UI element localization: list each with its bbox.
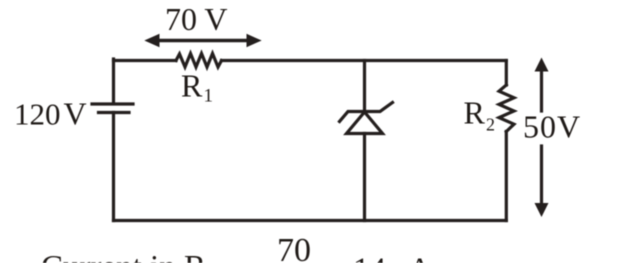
svg-text:R: R bbox=[181, 68, 203, 104]
svg-text:A: A bbox=[408, 252, 432, 263]
svg-text:R: R bbox=[464, 95, 486, 131]
wire bottom bbox=[114, 219, 507, 222]
battery B1 long plate bbox=[92, 102, 133, 105]
arrow 70V shaft bbox=[157, 39, 249, 42]
wire left vertical upper (to battery) bbox=[112, 59, 115, 103]
svg-text:70 V: 70 V bbox=[165, 1, 228, 37]
arrow 50V down head bbox=[535, 203, 549, 217]
wire top right (R1 to top-right corner) bbox=[222, 59, 507, 62]
battery B1 short plate bbox=[99, 111, 130, 114]
arrow 50V up head bbox=[535, 58, 549, 72]
resistor R1 zigzag bbox=[176, 54, 222, 68]
wire middle vertical upper (top wire to zener) bbox=[363, 61, 366, 112]
zener diode D1 anode triangle bbox=[347, 112, 383, 134]
svg-text:1: 1 bbox=[204, 86, 214, 107]
arrow 50V lower shaft bbox=[540, 146, 543, 205]
svg-text:Current in R: Current in R bbox=[41, 250, 206, 263]
zener diode D1 cathode bar with bent tips bbox=[340, 103, 393, 122]
svg-text:V: V bbox=[64, 96, 87, 132]
resistor R2 zigzag bbox=[499, 85, 514, 132]
wire right vertical upper (top to R2) bbox=[505, 61, 508, 86]
arrow 70V left head bbox=[144, 34, 159, 47]
svg-text:50V: 50V bbox=[523, 109, 581, 145]
wire left vertical lower (battery to bottom) bbox=[112, 113, 115, 221]
wire top left (battery + to R1) bbox=[114, 59, 177, 62]
wire middle vertical lower (zener to bottom) bbox=[363, 134, 366, 221]
svg-text:120: 120 bbox=[14, 97, 61, 132]
wire right vertical lower (R2 to bottom) bbox=[505, 132, 508, 221]
arrow 50V upper shaft bbox=[540, 69, 543, 111]
svg-text:2: 2 bbox=[486, 115, 495, 135]
svg-text:14: 14 bbox=[353, 252, 386, 263]
svg-text:70: 70 bbox=[277, 232, 311, 263]
arrow 70V right head bbox=[247, 34, 262, 47]
